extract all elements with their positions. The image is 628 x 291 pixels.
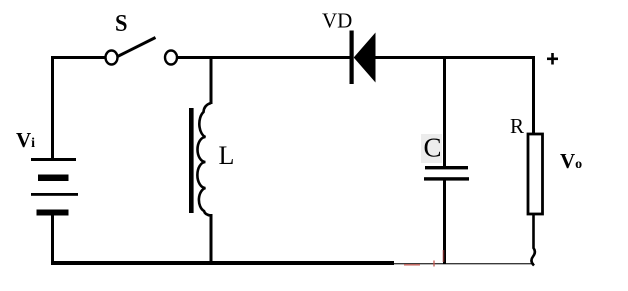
svg-text:Vi: Vi [16,128,35,152]
svg-text:R: R [510,114,524,138]
svg-text:VD: VD [322,9,352,33]
label + output polarity [547,53,558,65]
svg-text:C: C [424,133,442,163]
label C background patch [421,134,442,163]
wire capacitor top lead [443,56,446,168]
wire bottom rail thick segment [51,261,394,265]
wire inductor bottom lead [210,214,213,264]
red scan artifact on bottom rail [404,250,444,267]
svg-text:Vo: Vo [560,149,582,173]
inductor L coil [197,103,211,216]
wire resistor bottom lead [531,214,534,266]
wire top rail left segment (battery to switch) [51,56,106,59]
resistor R body [528,134,543,214]
wire capacitor bottom lead [443,180,446,264]
diode VD cathode bar [350,31,354,85]
node junction of inductor branch [210,56,213,104]
svg-text:S: S [115,11,128,37]
wire battery negative lead [51,215,54,264]
wire right vertical top (rail to resistor) [532,56,535,135]
wire top rail right segment (diode to output corner) [375,56,535,59]
capacitor C plate 2 [424,177,469,180]
capacitor C plate 1 [425,166,468,169]
svg-text:L: L [219,141,235,170]
wire left vertical (rail down to battery) [51,56,54,160]
inductor L core bar [189,108,194,213]
switch S blade [118,38,156,57]
switch S left contact [106,51,118,65]
wire bottom rail thin segment [394,263,534,265]
wire top rail middle segment (switch to diode) [177,56,350,59]
battery Vi plate 1 long [31,158,76,161]
diode VD triangle [354,33,376,83]
battery Vi plate 2 short thick [38,175,69,182]
battery Vi plate 4 short thick [37,210,69,216]
switch S right contact [165,51,177,65]
battery Vi plate 3 long [31,193,78,196]
